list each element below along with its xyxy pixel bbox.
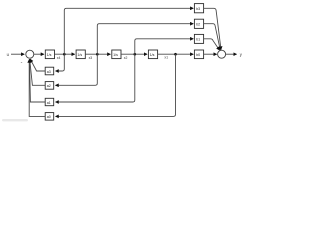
svg-text:b1: b1 (196, 38, 200, 42)
wire I4 to b0 (158, 53, 194, 55)
wire input arrow (11, 53, 24, 55)
wire a2 to S1 bottom (30, 59, 46, 85)
wire tap x4 down to a3 (56, 54, 65, 71)
svg-text:b2: b2 (196, 22, 200, 26)
summing junction S1 (26, 50, 34, 58)
integrator block I3 (1/s) (112, 50, 121, 59)
gain block b0 (194, 50, 203, 59)
svg-text:a0: a0 (47, 115, 51, 119)
svg-text:a1: a1 (47, 101, 51, 105)
svg-text:1/s: 1/s (77, 53, 82, 57)
wire tap x2 up to b1 (135, 39, 193, 54)
wire a0 to S1 bottom (29, 60, 45, 117)
svg-text:1/s: 1/s (113, 53, 118, 57)
wire b3 to S2 top (204, 8, 221, 49)
gain block a3 (45, 67, 54, 75)
wire I2 to I3 (85, 53, 110, 55)
watermark smudge bottom left (2, 119, 28, 121)
wire tap x4 up to b3 (64, 8, 193, 54)
svg-text:a2: a2 (47, 84, 51, 88)
svg-text:1/s: 1/s (47, 53, 52, 57)
wire b2 to S2 top (204, 24, 221, 50)
gain block a1 (45, 98, 54, 105)
gain block a0 (45, 113, 54, 121)
wire tap x3 up to b2 (97, 24, 193, 55)
integrator block I4 (1/s) (148, 50, 157, 59)
wire a3 to S1 bottom (30, 59, 45, 71)
svg-text:x4: x4 (57, 56, 61, 60)
svg-text:x3: x3 (89, 56, 93, 60)
node x4 dot (63, 53, 66, 56)
node x1 dot (174, 53, 177, 56)
summing junction S2 (218, 50, 226, 58)
wire I3 to I4 (121, 53, 147, 55)
gain block b3 (194, 4, 203, 13)
svg-text:b3: b3 (196, 7, 200, 11)
gain block a2 (45, 82, 54, 90)
svg-text:-: - (21, 59, 23, 65)
wire b1 to S2 top (204, 39, 220, 50)
gain block b2 (194, 19, 203, 28)
svg-text:b0: b0 (196, 53, 200, 57)
integrator block I2 (1/s) (76, 50, 85, 59)
gain block b1 (194, 34, 203, 43)
wire tap x2 down to a1 (56, 54, 135, 102)
node x2 dot (134, 53, 137, 56)
wire output arrow (226, 53, 237, 55)
wire I1 to I2 (55, 53, 75, 55)
wire tap x1 down to a0 (56, 54, 176, 116)
svg-text:a3: a3 (47, 70, 51, 74)
svg-text:1/s: 1/s (150, 53, 155, 57)
wire S1 to block 1/s #1 (34, 53, 44, 55)
integrator block I1 (1/s) (45, 50, 54, 59)
wire tap x3 down to a2 (56, 54, 98, 85)
svg-text:x1: x1 (164, 56, 168, 60)
wire a1 to S1 bottom (30, 59, 46, 102)
svg-text:x2: x2 (124, 56, 128, 60)
node x3 dot (96, 53, 99, 56)
wire b0 to S2 (204, 53, 217, 55)
